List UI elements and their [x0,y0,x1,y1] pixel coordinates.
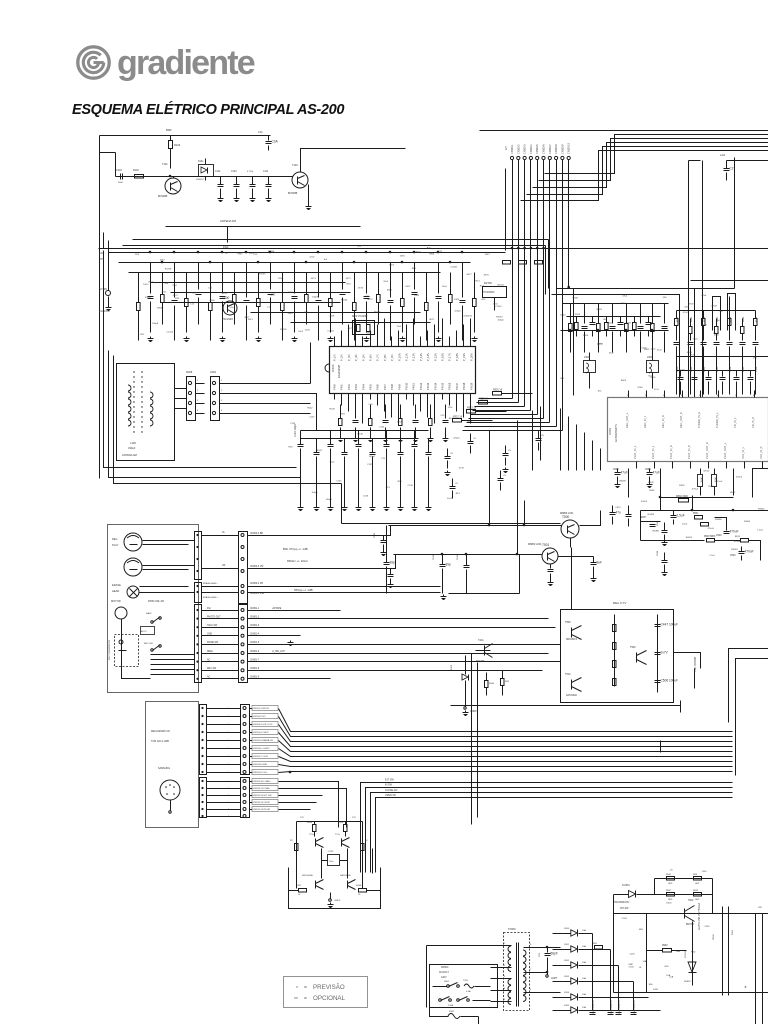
svg-text:C13: C13 [381,458,386,460]
svg-text:R545: R545 [743,316,745,322]
svg-text:PLAY_OUT_L: PLAY_OUT_L [723,442,727,459]
svg-text:39p: 39p [446,563,452,567]
svg-text:Pwr: Pwr [207,607,211,610]
svg-text:22K8: 22K8 [598,343,604,345]
svg-text:1K6: 1K6 [753,357,758,359]
svg-text:PLAY_IN_L: PLAY_IN_L [651,445,655,459]
svg-text:1K4: 1K4 [597,391,602,393]
svg-text:C136: C136 [363,496,369,498]
svg-text:L2/2: L2/2 [720,153,726,157]
svg-text:T501: T501 [542,543,549,547]
svg-text:R5481: R5481 [758,509,765,511]
svg-text:10u3: 10u3 [692,338,698,340]
svg-text:C131: C131 [379,427,385,429]
svg-text:+B/TAPE: +B/TAPE [272,607,282,610]
svg-text:C523: C523 [708,486,714,488]
svg-text:WHM?: WHM? [684,981,691,983]
svg-text:4K77: 4K77 [244,317,250,319]
svg-text:SR10000A: SR10000A [302,874,313,877]
svg-text:4.7/50: 4.7/50 [247,171,254,173]
svg-text:4K72: 4K72 [173,295,179,297]
svg-text:22n1: 22n1 [249,253,255,255]
svg-text:PREVISÃO: PREVISÃO [313,984,345,991]
svg-text:R204: R204 [307,822,313,824]
svg-text:47u6: 47u6 [701,295,707,297]
svg-text:C544: C544 [657,520,659,526]
svg-text:D3T00: D3T00 [484,281,492,285]
svg-text:R525 1K: R525 1K [479,398,489,401]
svg-text:R530 300K: R530 300K [676,495,688,498]
svg-text:C1204: C1204 [167,332,174,334]
svg-text:1K: 1K [639,967,642,969]
svg-text:MA3 3Y220R: MA3 3Y220R [352,314,368,318]
svg-text:C220: C220 [328,851,334,853]
svg-text:C90x/1000uF/35: C90x/1000uF/35 [593,999,595,1015]
svg-text:1n6: 1n6 [164,283,168,285]
svg-text:P_10N: P_10N [397,353,401,361]
svg-text:1.5u4: 1.5u4 [757,529,763,531]
svg-text:GNPT: GNPT [551,978,558,980]
svg-text:PIN0: PIN0 [333,384,337,390]
svg-text:C14: C14 [440,415,445,417]
svg-text:AC2571/15B-15V/T500mA: AC2571/15B-15V/T500mA [698,902,701,930]
svg-text:10A: 10A [676,950,680,953]
svg-text:CN500-1: CN500-1 [511,144,514,154]
svg-text:C133: C133 [231,171,237,173]
svg-text:PIN10: PIN10 [405,382,409,390]
svg-text:C250: C250 [622,918,628,920]
svg-text:P_17N: P_17N [448,353,452,361]
svg-text:6808: 6808 [210,300,216,302]
svg-text:IC100: IC100 [331,364,335,372]
svg-text:T508: T508 [565,621,571,624]
svg-text:10K6: 10K6 [400,256,406,258]
svg-text:C516: C516 [756,366,758,372]
svg-text:R541: R541 [693,513,699,515]
svg-text:C511: C511 [457,554,459,560]
svg-text:ERASE: ERASE [112,583,121,587]
svg-text:MECANISMO CD: MECANISMO CD [151,730,170,733]
svg-text:PLAY_OUT_R: PLAY_OUT_R [705,442,709,459]
svg-text:120A: 120A [448,1004,454,1007]
svg-text:470uF: 470uF [745,550,754,554]
svg-text:R16: R16 [347,284,352,286]
svg-text:VL: VL [222,531,226,534]
svg-text:PIN16: PIN16 [448,382,452,390]
svg-text:10K2: 10K2 [143,284,149,286]
svg-text:470uF: 470uF [730,530,739,534]
svg-text:PLAY_IN_L: PLAY_IN_L [633,445,637,459]
svg-text:GNP: GNP [668,883,673,885]
svg-text:C16: C16 [369,404,374,406]
svg-text:S901: S901 [444,981,450,983]
svg-text:PLAY_IN_R: PLAY_IN_R [687,445,691,459]
svg-text:R268: R268 [356,885,362,887]
svg-text:CN801-6: CN801-6 [250,651,260,653]
svg-text:CN500-5: CN500-5 [536,144,539,154]
svg-text:P_5N: P_5N [361,354,365,361]
svg-text:10K1: 10K1 [248,319,254,321]
svg-text:CN204-11 LOAD-: CN204-11 LOAD- [253,787,270,790]
svg-text:22n3: 22n3 [309,256,315,258]
svg-text:10A: 10A [582,945,586,948]
svg-text:CN500-9: CN500-9 [561,144,564,154]
svg-text:IC2501: IC2501 [622,884,630,887]
svg-text:EJT SW: EJT SW [385,779,394,782]
svg-text:D903: D903 [564,976,570,978]
svg-text:D501: D501 [653,989,659,991]
svg-text:22n1: 22n1 [161,292,167,294]
svg-text:C513: C513 [717,366,719,372]
svg-text:C522: C522 [615,507,621,509]
svg-text:R17: R17 [341,414,346,416]
svg-text:R557: R557 [666,890,672,892]
svg-text:C509: C509 [645,469,651,471]
svg-text:R14: R14 [448,407,453,409]
svg-text:3: 3 [504,976,506,978]
svg-text:SAT2000A: SAT2000A [566,694,577,697]
svg-text:56pF: 56pF [551,952,558,956]
svg-text:R13: R13 [456,493,461,495]
svg-text:100p4: 100p4 [453,437,460,439]
svg-text:R541: R541 [691,316,693,322]
svg-text:P_12N: P_12N [412,353,416,361]
svg-text:C528: C528 [716,535,722,537]
svg-text:2: 2 [197,390,199,392]
svg-text:R50: R50 [665,966,670,968]
svg-text:R1155: R1155 [259,273,266,275]
svg-text:R146: R146 [330,409,336,411]
svg-text:C1200: C1200 [495,306,502,308]
svg-text:22n8: 22n8 [329,315,335,317]
svg-text:D900: D900 [564,928,570,930]
svg-text:CN204-5 BEATA-CD: CN204-5 BEATA-CD [253,739,274,742]
svg-text:R540: R540 [677,316,679,322]
svg-text:1K6: 1K6 [663,297,668,299]
svg-text:R5485: R5485 [619,480,626,482]
svg-text:4K76: 4K76 [484,275,490,277]
svg-text:39p: 39p [390,561,396,565]
svg-text:VR: VR [222,564,226,567]
svg-text:R58: R58 [693,874,698,876]
svg-text:470u6: 470u6 [703,470,710,472]
svg-text:R204: R204 [338,822,344,824]
svg-text:GND: GND [207,634,212,636]
svg-text:HEAD: HEAD [112,589,119,593]
svg-text:C507: C507 [626,323,632,325]
svg-text:47u: 47u [616,511,622,515]
svg-text:2N4007: 2N4007 [196,179,204,181]
svg-text:2: 2 [504,965,506,967]
svg-text:47u2: 47u2 [657,350,663,352]
svg-text:4K75: 4K75 [437,251,443,253]
svg-text:R13: R13 [175,298,180,300]
svg-text:R12: R12 [140,334,145,336]
svg-text:R15: R15 [412,268,417,270]
svg-text:CD_IN_L: CD_IN_L [733,417,737,428]
svg-text:4K77: 4K77 [346,278,352,280]
svg-text:22K8: 22K8 [575,314,581,316]
svg-text:CN800-3 VM: CN800-3 VM [250,566,263,568]
svg-text:R1150: R1150 [497,285,504,287]
svg-text:C137: C137 [309,417,315,419]
svg-text:P_14N: P_14N [426,353,430,361]
svg-text:6808: 6808 [429,253,435,255]
svg-text:R546: R546 [756,316,758,322]
svg-text:**: ** [294,997,298,1003]
svg-text:CN500-7: CN500-7 [549,144,552,154]
svg-text:CN500-6: CN500-6 [543,144,546,154]
svg-text:TUNER_IN_L: TUNER_IN_L [715,412,719,428]
svg-text:6807: 6807 [367,333,373,335]
svg-text:R10: R10 [398,481,403,483]
svg-text:10A: 10A [582,961,586,964]
svg-text:C2: C2 [730,167,734,171]
svg-text:10A: 10A [582,929,586,932]
svg-text:L100: L100 [130,441,136,445]
svg-text:PIN4: PIN4 [361,384,365,390]
svg-text:47u0: 47u0 [714,335,720,337]
svg-text:C50: C50 [539,952,541,957]
svg-text:10K2: 10K2 [405,286,411,288]
svg-text:C500: C500 [560,314,566,316]
svg-text:T10A: T10A [478,639,484,642]
svg-text:BW73B: BW73B [686,924,694,926]
svg-text:22K4: 22K4 [621,303,627,305]
svg-text:T500: T500 [562,515,569,519]
svg-text:SR500: SR500 [441,966,449,969]
svg-text:R264: R264 [489,683,495,685]
svg-text:T101: T101 [162,163,168,166]
svg-text:R142: R142 [307,407,313,409]
svg-text:P_3N: P_3N [347,354,351,361]
svg-text:R524: R524 [693,890,699,892]
svg-text:JW01: JW01 [210,371,217,374]
svg-text:CN204-8 GND: CN204-8 GND [253,764,268,766]
svg-text:R501: R501 [583,335,589,337]
svg-text:1K2: 1K2 [560,378,565,380]
svg-text:C515: C515 [743,366,745,372]
svg-text:C14: C14 [267,307,272,309]
svg-text:100p8: 100p8 [152,323,159,325]
svg-text:CN204-12 EJT SW: CN204-12 EJT SW [253,795,272,797]
svg-text:P_6N: P_6N [369,354,373,361]
svg-text:4: 4 [197,410,199,412]
svg-text:47u8: 47u8 [459,467,465,469]
svg-text:A/T: A/T [505,146,508,150]
svg-text:470u3: 470u3 [641,501,648,503]
svg-text:PIN9: PIN9 [397,384,401,390]
svg-text:C543: C543 [374,532,376,538]
svg-text:PLAY_IN_R: PLAY_IN_R [669,445,673,459]
svg-text:C12: C12 [208,287,213,289]
svg-text:R522 1K: R522 1K [453,416,463,419]
svg-text:10K5: 10K5 [270,295,276,297]
svg-text:PIN13: PIN13 [426,382,430,390]
svg-text:R5481: R5481 [731,549,738,551]
svg-text:-B: -B [744,986,747,989]
svg-text:SAMSUNG: SAMSUNG [158,767,170,770]
svg-text:TF900: TF900 [508,927,516,931]
svg-text:CN204-7 CD-R: CN204-7 CD-R [253,756,268,758]
svg-text:22K8: 22K8 [637,387,643,389]
svg-text:22n7: 22n7 [172,285,178,287]
svg-text:R50: R50 [702,871,707,873]
svg-text:KA22425/B: KA22425/B [337,365,341,378]
svg-text:10K2: 10K2 [288,313,294,315]
svg-text:HALF: HALF [146,612,152,615]
svg-text:1n1: 1n1 [357,246,361,248]
svg-text:R14: R14 [135,254,140,256]
svg-text:CN204-4 CHOP: CN204-4 CHOP [253,732,269,734]
svg-text:R523 1K: R523 1K [467,407,477,410]
svg-text:2: 2 [221,390,223,392]
svg-text:R508: R508 [573,297,579,299]
svg-text:MODE SW: MODE SW [207,642,219,644]
svg-text:22n0: 22n0 [442,286,448,288]
svg-text:T200: T200 [463,980,469,982]
svg-text:470u6: 470u6 [734,541,741,543]
svg-text:T501 BC548B: T501 BC548B [694,657,697,672]
svg-text:3: 3 [197,400,199,402]
svg-text:CN500-4: CN500-4 [530,144,533,154]
svg-text:2SC2926: 2SC2926 [222,317,233,321]
svg-text:C526: C526 [730,555,736,557]
svg-text:REC_OUT_L: REC_OUT_L [625,412,629,428]
svg-text:REC 6.7V: REC 6.7V [613,601,626,605]
svg-text:P_1N: P_1N [333,354,337,361]
svg-text:C447 100uF: C447 100uF [661,623,679,627]
svg-text:GNP: GNP [695,899,700,901]
svg-text:ERASE HEAD −: ERASE HEAD − [203,582,219,585]
svg-text:300K5: 300K5 [744,521,751,523]
svg-text:P_8N: P_8N [383,354,387,361]
svg-text:PIN15: PIN15 [441,382,445,390]
svg-text:10K2: 10K2 [160,259,166,261]
svg-text:47u3: 47u3 [683,312,689,314]
svg-text:R503: R503 [621,380,627,382]
svg-text:L500: L500 [584,356,590,359]
svg-text:C514: C514 [730,366,732,372]
svg-text:10K6: 10K6 [454,299,460,301]
svg-text:E300: E300 [451,664,453,670]
svg-text:IC2502: IC2502 [685,950,687,958]
svg-text:P_11N: P_11N [405,353,409,361]
svg-text:CN204-9 CD-L: CN204-9 CD-L [253,772,268,774]
svg-text:MOTOR: MOTOR [111,599,121,603]
svg-text:110VOLT: 110VOLT [439,971,449,974]
svg-text:C5: C5 [508,450,512,452]
svg-text:C250: C250 [628,966,634,968]
svg-text:100p0: 100p0 [311,492,318,494]
svg-text:47uF: 47uF [621,471,628,475]
svg-text:6800: 6800 [288,292,294,294]
svg-text:R102: R102 [133,169,139,172]
svg-text:D901: D901 [564,944,570,946]
svg-text:*: * [296,986,298,992]
svg-text:CN204-13 CHOP: CN204-13 CHOP [253,802,270,804]
svg-text:R541: R541 [666,874,672,876]
svg-text:D905: D905 [564,1005,570,1007]
svg-text:1n3: 1n3 [323,259,327,261]
svg-text:C14: C14 [223,293,228,295]
svg-text:4K72: 4K72 [467,316,473,318]
svg-text:T21x: T21x [309,834,315,836]
svg-text:PIN19: PIN19 [469,382,473,390]
svg-text:CN800-4 BR: CN800-4 BR [250,533,263,535]
svg-text:R532: R532 [730,492,736,494]
svg-text:CLOSE-CD: CLOSE-CD [385,789,398,792]
svg-text:1.5u1: 1.5u1 [709,555,715,557]
svg-text:P_7N: P_7N [376,354,380,361]
svg-text:C250: C250 [629,954,635,956]
svg-text:100p1: 100p1 [326,499,333,501]
svg-text:C5: C5 [450,453,454,455]
svg-text:1K7: 1K7 [719,311,724,313]
svg-text:470u5: 470u5 [708,528,715,530]
svg-text:8: 8 [530,944,532,946]
svg-text:F902: F902 [732,929,734,935]
svg-text:1.5u4: 1.5u4 [682,523,688,525]
svg-text:300K3: 300K3 [686,537,693,539]
svg-text:C250: C250 [704,926,710,928]
svg-text:47u4: 47u4 [622,295,628,297]
svg-text:PH.NOM: PH.NOM [99,309,109,313]
svg-text:GNP: GNP [668,899,673,901]
svg-text:CN204-3 SOLO-CD: CN204-3 SOLO-CD [253,724,273,726]
svg-text:7: 7 [530,969,532,971]
svg-text:10A: 10A [582,1006,586,1009]
svg-text:C112: C112 [215,171,221,173]
svg-text:R2: R2 [290,840,293,842]
svg-text:10A: 10A [643,960,647,963]
svg-text:D501: D501 [666,902,672,904]
svg-text:22n4: 22n4 [414,295,420,297]
svg-text:470u4: 470u4 [692,488,699,490]
svg-text:TP: TP [100,259,103,261]
svg-text:R1158: R1158 [268,251,275,253]
svg-text:1: 1 [504,943,506,945]
svg-text:ANTENA AM: ANTENA AM [122,453,137,457]
svg-text:P_18N: P_18N [455,353,459,361]
svg-text:PIN6: PIN6 [376,384,380,390]
svg-text:T900: T900 [688,900,694,902]
svg-text:MMBF J201: MMBF J201 [560,512,574,515]
svg-text:1.5uF: 1.5uF [677,514,685,518]
svg-text:R50: R50 [639,929,644,931]
svg-text:330uF: 330uF [128,446,136,450]
svg-text:CN801-3: CN801-3 [250,625,260,627]
svg-text:SAT2000A: SAT2000A [340,874,351,877]
svg-text:47uF: 47uF [653,471,660,475]
svg-text:P_19N: P_19N [462,353,466,361]
svg-text:VOL_IN_L: VOL_IN_L [741,446,745,459]
svg-text:6: 6 [530,989,532,991]
svg-text:R542: R542 [704,316,706,322]
svg-text:22n5: 22n5 [298,331,304,333]
svg-text:100p3: 100p3 [312,297,319,299]
svg-text:R15: R15 [481,299,486,301]
svg-text:10A: 10A [582,993,586,996]
svg-text:TRANSMATIC: TRANSMATIC [614,901,630,904]
svg-text:1K: 1K [670,870,673,872]
svg-text:1: 1 [197,380,199,382]
svg-text:R103: R103 [174,143,181,147]
svg-text:CN90: CN90 [713,934,715,940]
svg-text:C1203: C1203 [327,330,334,332]
svg-text:4K70: 4K70 [367,299,373,301]
svg-text:P_4N: P_4N [354,354,358,361]
